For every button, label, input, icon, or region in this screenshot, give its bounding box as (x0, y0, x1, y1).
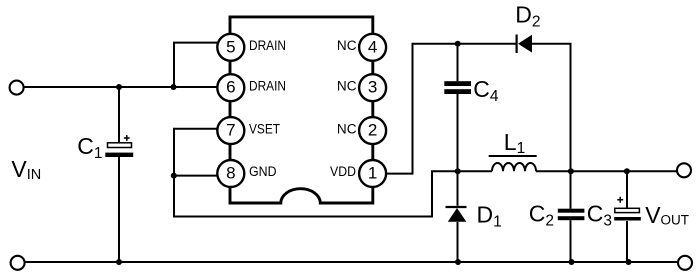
svg-text:4: 4 (368, 37, 377, 56)
svg-text:NC: NC (337, 78, 357, 93)
svg-text:NC: NC (337, 121, 357, 136)
svg-text:5: 5 (226, 37, 235, 56)
svg-text:3: 3 (368, 78, 377, 97)
svg-text:2: 2 (368, 121, 377, 140)
svg-text:1: 1 (368, 164, 377, 183)
svg-text:DRAIN: DRAIN (249, 78, 286, 93)
svg-text:7: 7 (226, 121, 235, 140)
svg-text:GND: GND (249, 164, 277, 179)
svg-text:NC: NC (337, 38, 357, 53)
svg-text:6: 6 (226, 78, 235, 97)
svg-text:VDD: VDD (330, 164, 356, 179)
svg-text:8: 8 (226, 164, 235, 183)
svg-text:DRAIN: DRAIN (249, 38, 286, 53)
svg-text:VSET: VSET (249, 121, 280, 136)
